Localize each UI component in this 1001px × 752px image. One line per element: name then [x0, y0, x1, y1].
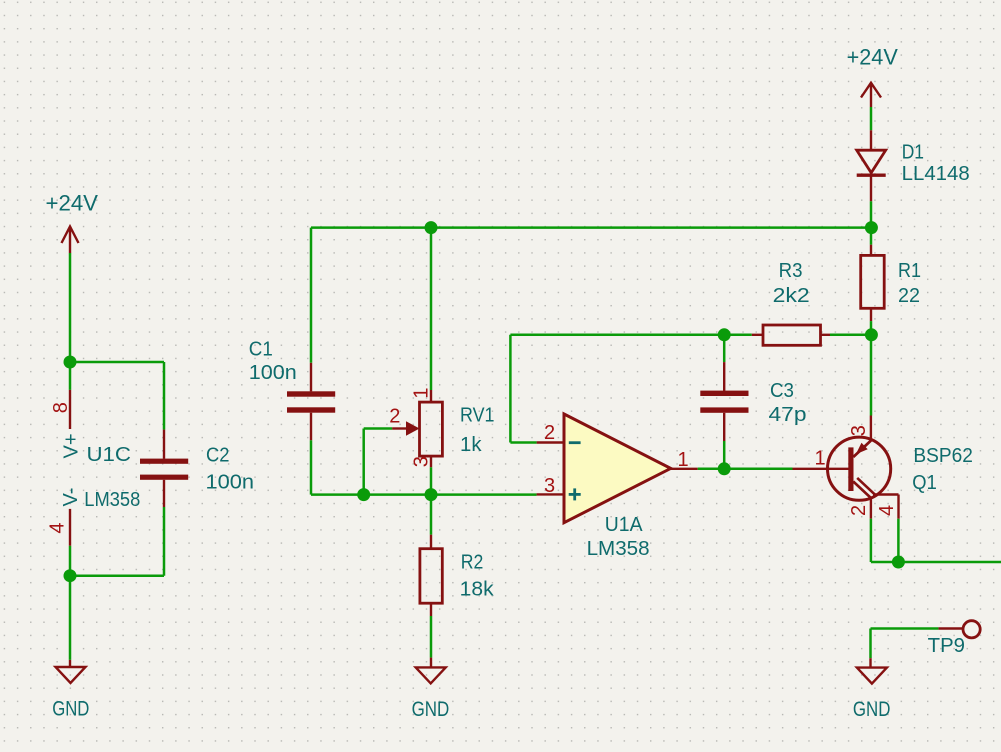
- wire: [430, 228, 433, 390]
- svg-text:TP9: TP9: [928, 635, 965, 657]
- capacitor C1: [249, 338, 335, 440]
- svg-text:GND: GND: [853, 698, 891, 721]
- svg-text:2k2: 2k2: [773, 285, 810, 307]
- wire: [723, 335, 726, 362]
- wire: [362, 429, 365, 495]
- wire: [897, 519, 900, 562]
- wire: [870, 228, 873, 245]
- svg-text:22: 22: [898, 285, 920, 307]
- svg-text:BSP62: BSP62: [913, 445, 973, 467]
- wire: [510, 441, 536, 444]
- resistor R1: [861, 245, 921, 321]
- svg-text:R3: R3: [779, 260, 803, 282]
- junction: [425, 488, 438, 501]
- svg-text:1: 1: [678, 449, 689, 471]
- svg-text:R2: R2: [461, 552, 484, 574]
- wire: [510, 334, 751, 337]
- capacitor C3: [700, 362, 806, 441]
- svg-text:C2: C2: [206, 445, 230, 467]
- power symbol +24V (left): [46, 191, 99, 254]
- ground: [853, 658, 891, 721]
- test point TP9: [928, 621, 981, 657]
- svg-text:2: 2: [389, 406, 400, 428]
- wire bottom rail: [311, 493, 537, 496]
- svg-text:2: 2: [848, 505, 870, 516]
- svg-text:GND: GND: [412, 698, 450, 721]
- svg-text:1k: 1k: [460, 434, 483, 456]
- diode D1: [857, 130, 970, 201]
- power symbol +24V (right): [847, 45, 898, 107]
- svg-text:47p: 47p: [769, 404, 807, 426]
- svg-text:+24V: +24V: [847, 45, 898, 70]
- svg-text:3: 3: [544, 475, 555, 497]
- wire: [870, 107, 873, 130]
- svg-text:LL4148: LL4148: [902, 163, 970, 185]
- ground: [412, 658, 450, 721]
- svg-text:Q1: Q1: [912, 472, 937, 494]
- wire: [430, 495, 433, 535]
- junction: [64, 569, 77, 582]
- svg-text:R1: R1: [898, 260, 921, 282]
- junction: [357, 488, 370, 501]
- svg-text:1: 1: [410, 387, 432, 398]
- wire: [870, 519, 873, 562]
- svg-text:C1: C1: [249, 338, 273, 360]
- junction: [892, 556, 905, 569]
- wire: [870, 321, 873, 335]
- wire: [871, 627, 939, 630]
- svg-text:D1: D1: [902, 142, 924, 164]
- wire: [69, 253, 72, 362]
- junction: [718, 328, 731, 341]
- svg-text:LM358: LM358: [587, 538, 650, 560]
- svg-text:GND: GND: [52, 698, 89, 721]
- svg-text:LM358: LM358: [84, 489, 140, 511]
- resistor R3: [752, 260, 830, 345]
- svg-text:+24V: +24V: [46, 191, 99, 216]
- svg-text:4: 4: [876, 505, 898, 516]
- svg-text:3: 3: [848, 425, 870, 436]
- wire: [69, 546, 72, 576]
- wire: [509, 335, 512, 443]
- wire: [830, 334, 871, 337]
- transistor Q1: [793, 416, 973, 519]
- svg-text:2: 2: [544, 422, 555, 444]
- svg-text:1: 1: [815, 447, 826, 469]
- wire: [869, 629, 872, 659]
- svg-text:4: 4: [47, 522, 69, 533]
- svg-text:3: 3: [410, 456, 432, 467]
- wire: [310, 440, 313, 494]
- svg-text:18k: 18k: [460, 579, 495, 601]
- op-amp U1A: [537, 414, 698, 560]
- wire: [723, 441, 726, 469]
- wire: [70, 574, 164, 577]
- wire: [430, 467, 433, 494]
- svg-text:100n: 100n: [249, 362, 297, 384]
- wire: [70, 361, 164, 364]
- wire: [871, 561, 899, 564]
- wire: [69, 576, 72, 660]
- junction: [64, 356, 77, 369]
- op-amp U1C power unit: [60, 390, 140, 546]
- junction: [865, 328, 878, 341]
- wire: [898, 561, 1001, 564]
- svg-text:C3: C3: [770, 380, 794, 402]
- svg-text:V+: V+: [61, 433, 83, 458]
- wire: [698, 468, 793, 471]
- wire: [364, 427, 392, 430]
- wire: [163, 362, 166, 430]
- svg-text:U1C: U1C: [87, 444, 132, 466]
- junction: [865, 221, 878, 234]
- junction: [718, 462, 731, 475]
- svg-text:U1A: U1A: [605, 514, 643, 536]
- capacitor C2: [140, 430, 254, 507]
- potentiometer RV1: [392, 390, 494, 467]
- wire: [870, 201, 873, 227]
- wire: [163, 507, 166, 576]
- svg-text:8: 8: [50, 402, 72, 413]
- wire: [69, 362, 72, 390]
- svg-text:RV1: RV1: [460, 405, 495, 427]
- junction: [425, 221, 438, 234]
- resistor R2: [420, 535, 495, 616]
- svg-text:V-: V-: [60, 488, 82, 507]
- ground: [52, 660, 89, 721]
- wire: [870, 335, 873, 416]
- wire: [310, 228, 313, 363]
- wire: [430, 616, 433, 658]
- svg-text:100n: 100n: [206, 472, 255, 494]
- wire top rail: [311, 226, 871, 229]
